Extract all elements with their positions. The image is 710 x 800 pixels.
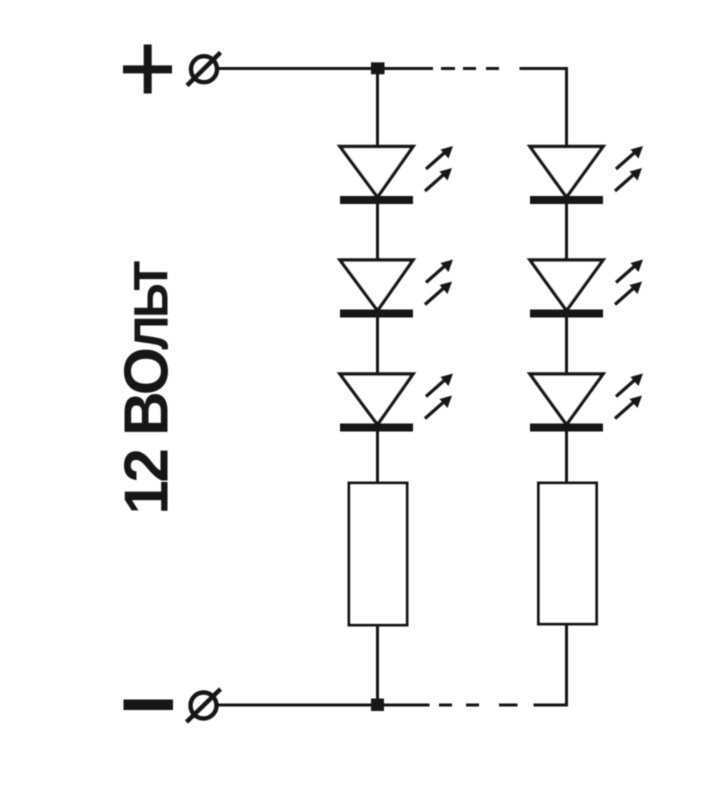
wire from R1 to node B bbox=[376, 625, 379, 705]
wire from D6 to resistor R2 bbox=[565, 432, 568, 484]
wire bottom rail dashed segments bbox=[439, 704, 518, 707]
wire from D1 to D2 bbox=[376, 204, 379, 260]
LED D1 bbox=[340, 146, 453, 204]
wire top rail solid from terminal to dash start bbox=[217, 67, 433, 70]
minus terminal symbol bbox=[124, 700, 174, 711]
wire bottom rail solid right of dashes to corner bbox=[534, 704, 569, 707]
resistor R2 bbox=[539, 483, 597, 624]
LED D3 bbox=[340, 374, 453, 432]
negative terminal connector X2 bbox=[187, 689, 221, 722]
LED D6 bbox=[530, 374, 643, 432]
wire from D2 to D3 bbox=[376, 318, 379, 375]
wire from top rail corner down to LED D4 bbox=[565, 67, 568, 147]
plus terminal symbol bbox=[123, 45, 172, 94]
node A junction (top, string 1) bbox=[371, 62, 385, 74]
LED D4 bbox=[530, 146, 643, 204]
wire from D4 to D5 bbox=[565, 204, 568, 260]
LED D5 bbox=[530, 260, 643, 318]
positive terminal connector X1 bbox=[187, 53, 221, 86]
node B junction (bottom, string 1) bbox=[371, 699, 384, 712]
wire top rail solid to right string corner bbox=[520, 67, 569, 70]
wire bottom rail solid from terminal to dash start bbox=[217, 704, 430, 707]
wire from D5 to D6 bbox=[565, 318, 568, 375]
wire from R2 down and corner to bottom rail bbox=[565, 624, 568, 707]
wire from D3 to resistor R1 bbox=[376, 432, 379, 484]
wire top rail dashed segments bbox=[441, 67, 499, 70]
wire from node A down to LED D1 bbox=[376, 74, 379, 147]
resistor R1 bbox=[349, 483, 407, 625]
LED D2 bbox=[340, 260, 453, 318]
